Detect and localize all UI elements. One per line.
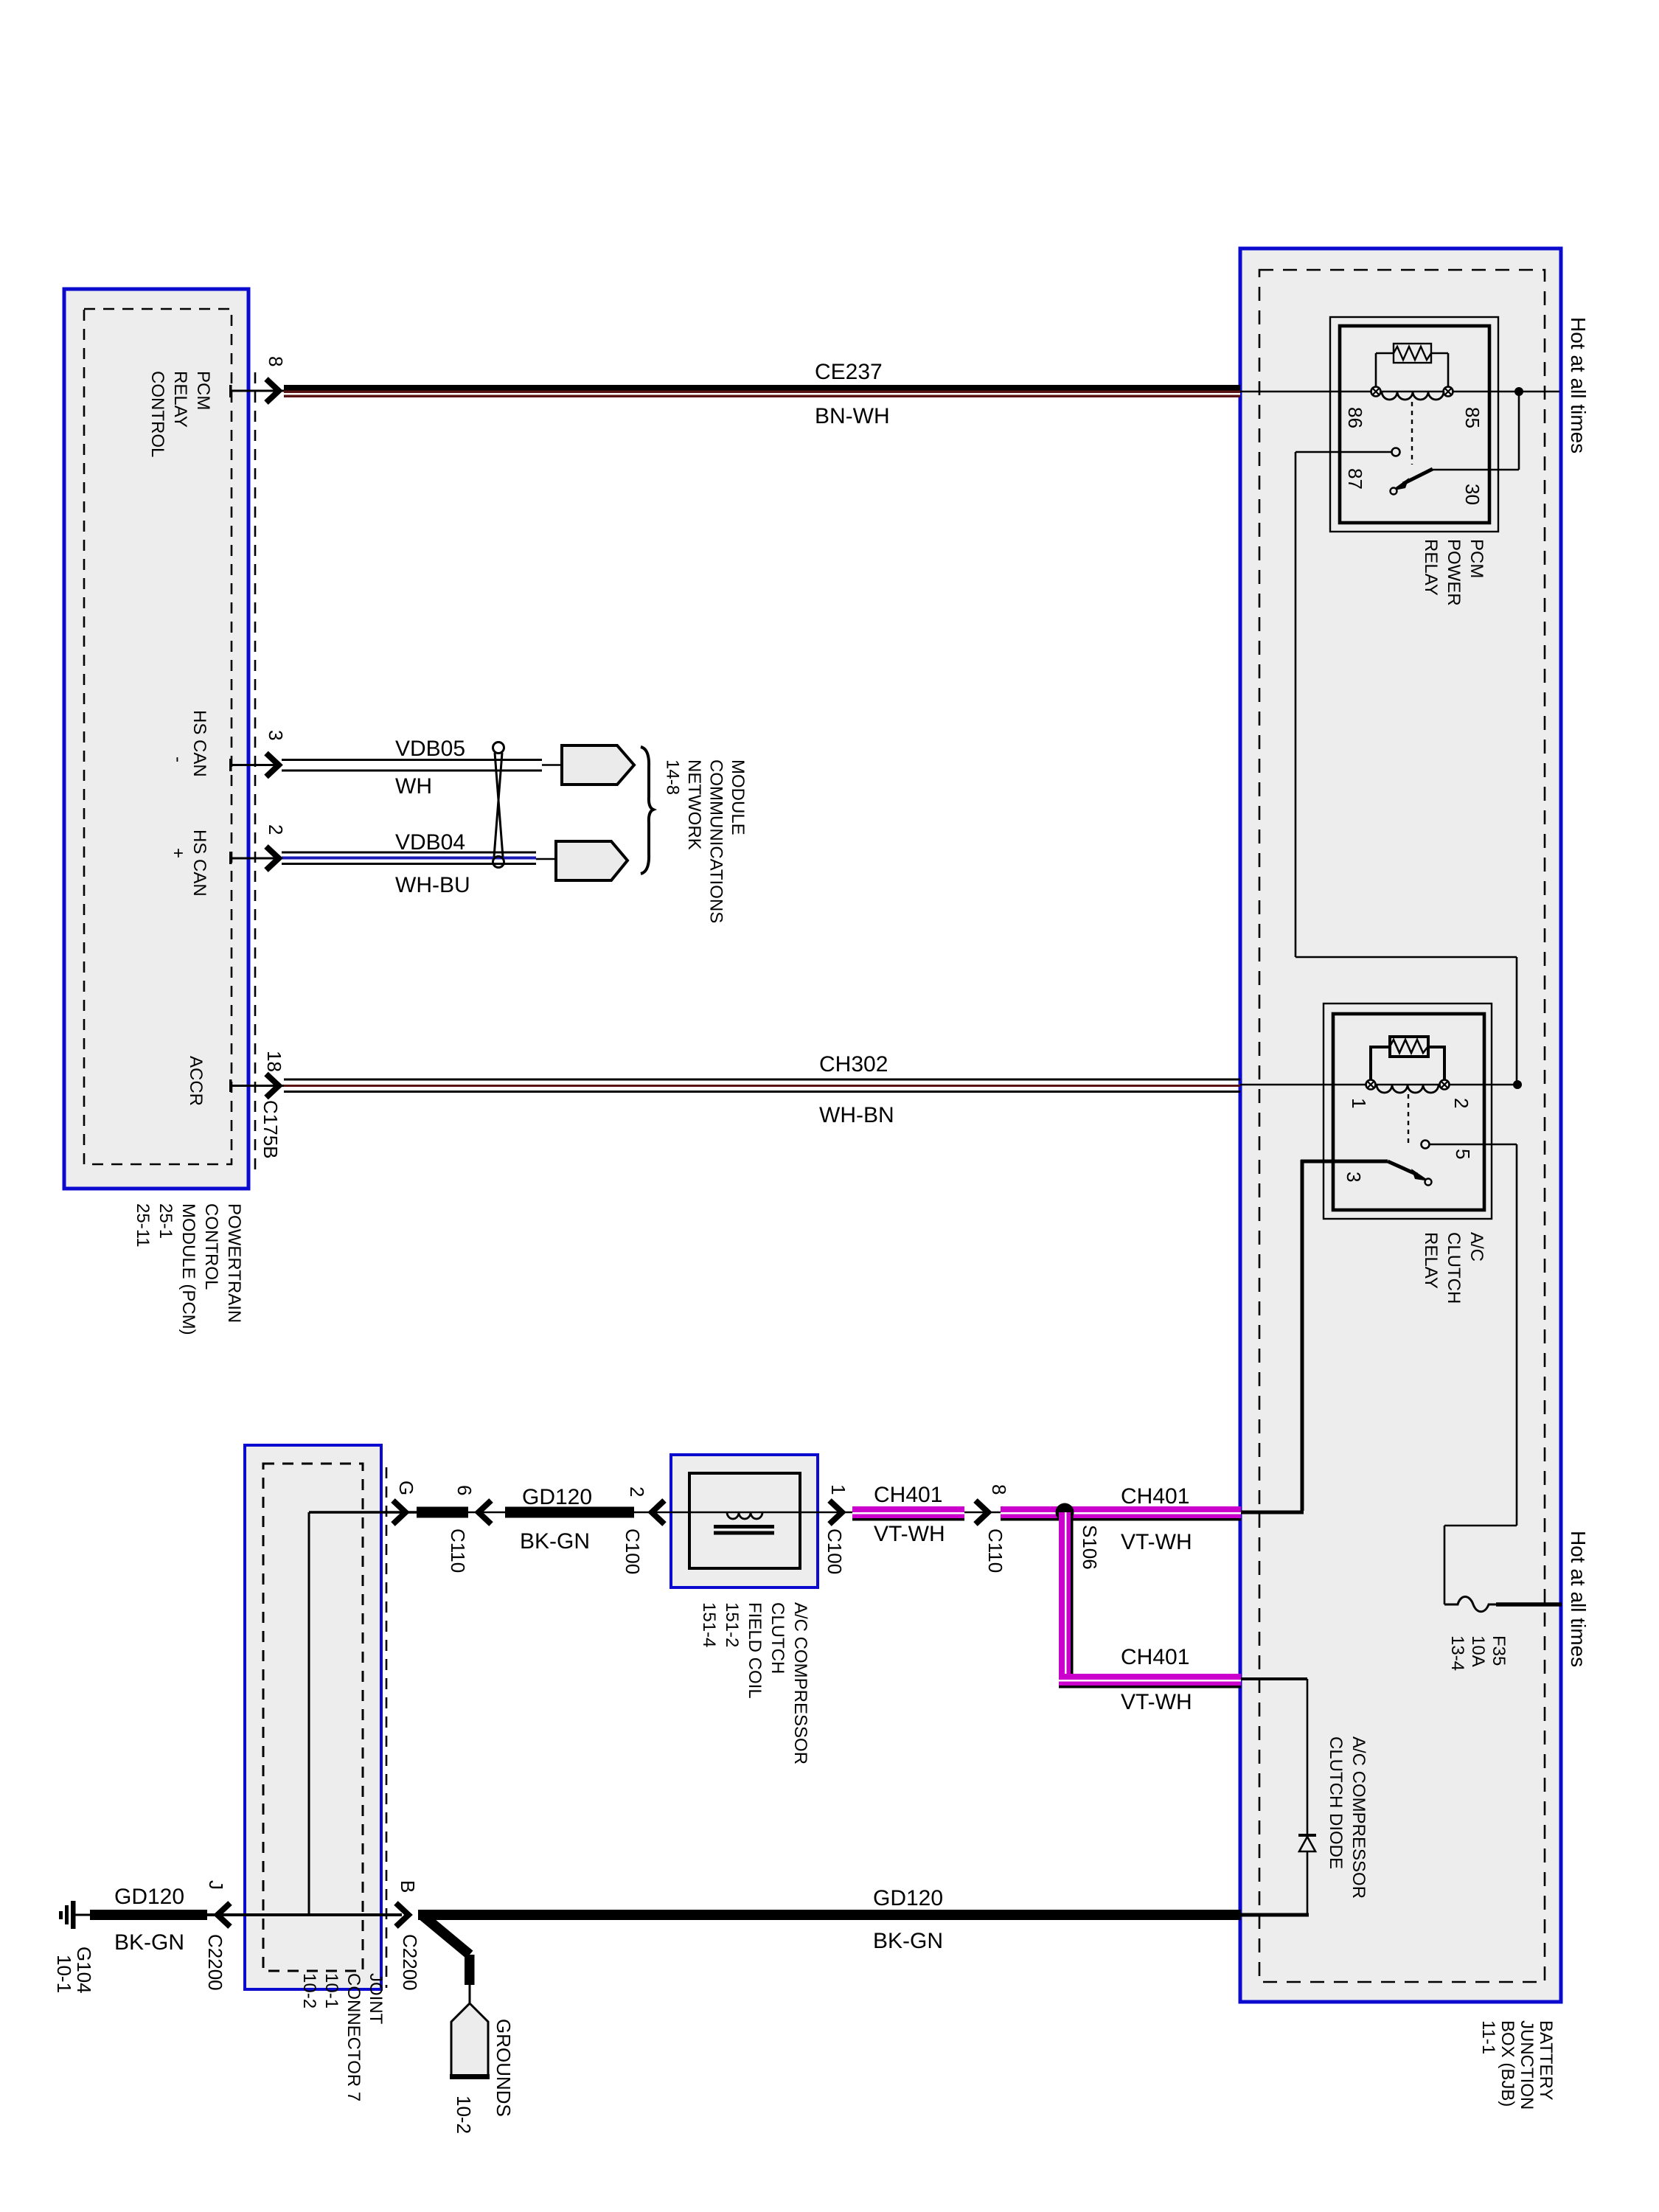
svg-text:RELAY: RELAY bbox=[170, 371, 190, 428]
label C100 pin 2 bbox=[626, 1486, 648, 1497]
label MODULE COMMUNICATIONS NETWORK 14-8 bbox=[663, 759, 748, 923]
twisted pair crossover symbol bbox=[493, 742, 504, 868]
svg-text:JUNCTION: JUNCTION bbox=[1517, 2020, 1537, 2110]
label F35 10A 13-4 bbox=[1447, 1635, 1509, 1671]
label wire CH302 WH-BN bbox=[819, 1052, 894, 1127]
svg-text:F35: F35 bbox=[1489, 1635, 1509, 1666]
svg-text:10A: 10A bbox=[1468, 1635, 1488, 1667]
svg-text:S106: S106 bbox=[1079, 1525, 1101, 1570]
svg-text:CLUTCH: CLUTCH bbox=[768, 1602, 787, 1674]
wire CH401 VT-WH (field coil to C110) bbox=[852, 1506, 964, 1521]
off-page connector arrow (network, lower) bbox=[556, 841, 627, 880]
svg-text:POWER: POWER bbox=[1444, 539, 1464, 606]
svg-text:CH401: CH401 bbox=[1121, 1645, 1189, 1669]
svg-text:G: G bbox=[395, 1481, 417, 1495]
field coil winding symbol bbox=[714, 1512, 774, 1535]
svg-text:HS CAN: HS CAN bbox=[189, 710, 209, 777]
ground symbol G104 bbox=[59, 1901, 90, 1929]
svg-text:COMMUNICATIONS: COMMUNICATIONS bbox=[706, 759, 726, 923]
svg-text:C2200: C2200 bbox=[399, 1934, 421, 1991]
svg-text:25-1: 25-1 bbox=[156, 1203, 175, 1239]
wire CE237 BN-WH (PCM pin 8 to BJB) bbox=[284, 385, 1240, 397]
svg-text:CONTROL: CONTROL bbox=[147, 371, 167, 457]
svg-text:BK-GN: BK-GN bbox=[873, 1929, 943, 1953]
svg-text:C110: C110 bbox=[447, 1528, 469, 1573]
label wire GD120 BK-GN (top chain) bbox=[520, 1485, 592, 1554]
label PCM POWER RELAY bbox=[1421, 539, 1486, 606]
svg-text:14-8: 14-8 bbox=[663, 759, 683, 795]
svg-text:VDB04: VDB04 bbox=[395, 830, 465, 855]
svg-text:151-2: 151-2 bbox=[722, 1602, 742, 1647]
label PCM pin 18 bbox=[263, 1051, 285, 1072]
module box PCM (POWERTRAIN CONTROL MODULE) bbox=[64, 289, 248, 1189]
label connector C100 (pin 2) bbox=[622, 1528, 644, 1574]
off-page arrow GROUNDS bbox=[450, 2003, 490, 2079]
svg-text:-: - bbox=[168, 757, 188, 762]
svg-text:CE237: CE237 bbox=[815, 360, 883, 384]
svg-text:8: 8 bbox=[988, 1484, 1010, 1495]
svg-text:GD120: GD120 bbox=[873, 1886, 943, 1910]
diode A/C compressor clutch diode bbox=[1298, 1834, 1316, 1851]
PCM power relay parallel resistor bbox=[1376, 344, 1448, 387]
label relay pin 1 bbox=[1348, 1098, 1370, 1108]
connector arrow C2200 pin B bbox=[396, 1903, 408, 1927]
svg-text:MODULE: MODULE bbox=[728, 759, 748, 835]
label C110 pin 8 bbox=[988, 1484, 1010, 1495]
svg-text:A/C: A/C bbox=[1467, 1232, 1486, 1262]
svg-text:FIELD COIL: FIELD COIL bbox=[745, 1602, 765, 1699]
svg-text:11-1: 11-1 bbox=[1478, 2020, 1498, 2054]
svg-text:JOINT: JOINT bbox=[366, 1973, 386, 2025]
label connector C100 (pin 1) bbox=[824, 1528, 846, 1574]
svg-text:C110: C110 bbox=[984, 1528, 1006, 1573]
wire CH401 VT-WH (C110 to BJB via S106) bbox=[1001, 1506, 1241, 1521]
svg-text:WH-BN: WH-BN bbox=[819, 1103, 894, 1127]
svg-text:C100: C100 bbox=[824, 1528, 846, 1574]
svg-text:Hot at all times: Hot at all times bbox=[1567, 1531, 1590, 1667]
PCM pin 18 terminal and arrow bbox=[229, 1074, 284, 1098]
wire through joint connector (J to B) bbox=[231, 1913, 402, 1916]
PCM power relay pin 30 wire bbox=[1433, 387, 1523, 470]
label Hot at all times (fuse) bbox=[1567, 1531, 1590, 1667]
svg-text:10-1: 10-1 bbox=[321, 1973, 341, 2008]
wire PCM relay pin 87 to A/C clutch relay coil bbox=[1295, 452, 1517, 1085]
PCM power relay armature dashed link bbox=[1411, 402, 1413, 465]
PCM power relay switch arm bbox=[1391, 469, 1433, 495]
svg-text:86: 86 bbox=[1344, 407, 1366, 428]
svg-text:BN-WH: BN-WH bbox=[815, 404, 890, 428]
label relay pin 85 bbox=[1461, 407, 1484, 428]
A/C clutch relay coil pins bbox=[1366, 1080, 1450, 1090]
label HS CAN - bbox=[168, 710, 209, 777]
wire top chain: joint connector internal (pin G) bbox=[309, 1512, 417, 1915]
label relay pin 2 bbox=[1450, 1098, 1472, 1108]
label HS CAN + bbox=[168, 829, 209, 897]
wire CH401 VT-WH branch from S106 down bbox=[1059, 1512, 1241, 1688]
A/C clutch relay pin 5 contact bbox=[1422, 1141, 1430, 1149]
PCM power relay coil pins bbox=[1371, 387, 1453, 397]
svg-text:BATTERY: BATTERY bbox=[1536, 2020, 1556, 2100]
svg-text:RELAY: RELAY bbox=[1421, 539, 1441, 596]
svg-text:1: 1 bbox=[827, 1484, 849, 1495]
label PCM pin 3 bbox=[265, 730, 287, 740]
label relay pin 30 bbox=[1461, 484, 1484, 505]
label PCM RELAY CONTROL bbox=[147, 371, 213, 457]
label A/C COMPRESSOR CLUTCH DIODE bbox=[1326, 1736, 1368, 1899]
svg-text:CH401: CH401 bbox=[874, 1483, 942, 1507]
svg-text:CH302: CH302 bbox=[819, 1052, 888, 1077]
connector arrow pin G bbox=[393, 1500, 406, 1524]
wire GD120 inside BJB to diode vertical bbox=[1241, 1913, 1309, 1917]
PCM power relay pin 87 contact bbox=[1392, 448, 1400, 456]
connector C175B dashed line bbox=[254, 372, 257, 1176]
svg-text:A/C COMPRESSOR: A/C COMPRESSOR bbox=[1349, 1736, 1368, 1899]
label PCM pin 2 bbox=[265, 824, 287, 835]
wire A/C relay pin 5 to fuse F35 bbox=[1430, 1144, 1517, 1604]
module box JOINT CONNECTOR 7 bbox=[245, 1445, 381, 1989]
svg-text:30: 30 bbox=[1461, 484, 1484, 505]
field coil wire through box bbox=[689, 1512, 818, 1514]
svg-text:25-11: 25-11 bbox=[133, 1203, 153, 1248]
svg-text:CLUTCH DIODE: CLUTCH DIODE bbox=[1326, 1736, 1346, 1869]
svg-text:BK-GN: BK-GN bbox=[520, 1529, 590, 1554]
connector arrow C100 pin 1 bbox=[818, 1500, 852, 1524]
label JC7 pin G bbox=[395, 1481, 417, 1495]
wire GD120 BK-GN (thick, C110 to C100) bbox=[505, 1507, 634, 1518]
svg-text:VT-WH: VT-WH bbox=[874, 1522, 945, 1546]
svg-text:13-4: 13-4 bbox=[1447, 1635, 1467, 1671]
svg-text:GROUNDS: GROUNDS bbox=[493, 2019, 515, 2117]
A/C clutch relay coil bbox=[1377, 1085, 1439, 1093]
svg-text:C100: C100 bbox=[622, 1528, 644, 1574]
PCM pin 3 terminal and arrow bbox=[229, 754, 282, 777]
connector arrow C110 pin 8 bbox=[964, 1500, 1001, 1524]
component box A/C COMPRESSOR CLUTCH FIELD COIL bbox=[671, 1455, 818, 1587]
relay box PCM POWER RELAY bbox=[1330, 317, 1498, 532]
svg-text:CLUTCH: CLUTCH bbox=[1444, 1232, 1464, 1304]
svg-text:GD120: GD120 bbox=[114, 1885, 184, 1909]
connector arrow C2200 pin J bbox=[218, 1903, 230, 1927]
label relay pin 3 bbox=[1343, 1172, 1365, 1182]
svg-text:1: 1 bbox=[1348, 1098, 1370, 1108]
label C2200 pin J bbox=[205, 1880, 227, 1890]
label C100 pin 1 bbox=[827, 1484, 849, 1495]
label wire CH401 VT-WH (S106 branch) bbox=[1121, 1645, 1192, 1714]
svg-text:151-4: 151-4 bbox=[699, 1602, 719, 1647]
splice node S106 bbox=[1056, 1503, 1074, 1522]
svg-text:VDB05: VDB05 bbox=[395, 737, 465, 761]
label wire CH401 VT-WH (coil to C110) bbox=[874, 1483, 945, 1546]
label A/C COMPRESSOR CLUTCH FIELD COIL 151-2 151-4 bbox=[699, 1602, 810, 1764]
svg-text:18: 18 bbox=[263, 1051, 285, 1072]
wire GD120 jumper (thick, G to C110 pin 6) bbox=[417, 1507, 468, 1518]
module box BJB (BATTERY JUNCTION BOX) bbox=[1240, 248, 1561, 2002]
svg-text:G104: G104 bbox=[73, 1947, 95, 1994]
relay box A/C CLUTCH RELAY bbox=[1324, 1004, 1492, 1219]
wire branch to grounds arrow (thick diagonal) bbox=[422, 1915, 475, 2005]
label connector C110 (pin 8) bbox=[984, 1528, 1006, 1573]
A/C clutch relay armature dashed link bbox=[1408, 1094, 1409, 1143]
PCM pin 8 terminal and arrow bbox=[229, 379, 284, 403]
label wire GD120 BK-GN (to BJB) bbox=[873, 1886, 943, 1953]
label ACCR bbox=[186, 1056, 206, 1106]
svg-text:RELAY: RELAY bbox=[1421, 1232, 1441, 1289]
label wire VDB04 WH-BU bbox=[395, 830, 470, 897]
svg-text:WH: WH bbox=[395, 774, 432, 799]
wire A/C relay pin 3 to CH401 exit (thick) bbox=[1241, 1160, 1388, 1512]
connector C2200 dashed line bbox=[386, 1467, 388, 1988]
svg-text:CONTROL: CONTROL bbox=[201, 1203, 221, 1290]
label wire GD120 BK-GN (to G104) bbox=[114, 1885, 184, 1955]
svg-text:B: B bbox=[397, 1880, 419, 1893]
connector arrow C110 pin 6 bbox=[468, 1500, 505, 1524]
A/C clutch relay switch arm bbox=[1388, 1161, 1432, 1186]
svg-text:10-2: 10-2 bbox=[453, 2096, 475, 2134]
wire GD120 BK-GN (B to BJB, thick) bbox=[418, 1910, 1241, 1920]
label C2200 pin B bbox=[397, 1880, 419, 1893]
svg-text:2: 2 bbox=[626, 1486, 648, 1497]
PCM pin 2 terminal and arrow bbox=[229, 846, 282, 870]
svg-text:GD120: GD120 bbox=[522, 1485, 592, 1509]
svg-text:ACCR: ACCR bbox=[186, 1056, 206, 1106]
svg-text:J: J bbox=[205, 1880, 227, 1890]
label JOINT CONNECTOR 7 10-1 10-2 bbox=[299, 1973, 386, 2101]
svg-text:3: 3 bbox=[1343, 1172, 1365, 1182]
svg-text:2: 2 bbox=[1450, 1098, 1472, 1108]
label connector C2200 (pin J) bbox=[204, 1934, 226, 1991]
svg-text:VT-WH: VT-WH bbox=[1121, 1530, 1192, 1554]
connector arrow C100 pin 2 bbox=[634, 1500, 689, 1524]
svg-text:BK-GN: BK-GN bbox=[114, 1930, 184, 1955]
label wire CE237 BN-WH bbox=[815, 360, 890, 428]
svg-text:A/C COMPRESSOR: A/C COMPRESSOR bbox=[790, 1602, 810, 1764]
svg-text:MODULE (PCM): MODULE (PCM) bbox=[178, 1203, 198, 1335]
svg-text:87: 87 bbox=[1344, 468, 1366, 490]
brace (module communications network) bbox=[641, 747, 653, 874]
wire coil line through A/C clutch relay (inside BJB) bbox=[1240, 1084, 1517, 1086]
label wire CH401 VT-WH (S106 to BJB) bbox=[1121, 1484, 1192, 1554]
junction node A/C relay coil pin 2 bbox=[1513, 1080, 1522, 1089]
svg-text:POWERTRAIN: POWERTRAIN bbox=[224, 1203, 244, 1323]
label ground G104 10-1 bbox=[53, 1947, 95, 1994]
svg-text:8: 8 bbox=[265, 356, 287, 366]
label POWERTRAIN CONTROL MODULE (PCM) bbox=[133, 1203, 244, 1335]
label relay pin 86 bbox=[1344, 407, 1366, 428]
svg-text:WH-BU: WH-BU bbox=[395, 873, 470, 897]
wire VDB04 WH-BU (PCM pin 2, twisted pair) bbox=[282, 852, 556, 864]
svg-text:C175B: C175B bbox=[260, 1100, 282, 1159]
svg-text:6: 6 bbox=[453, 1485, 476, 1495]
svg-text:2: 2 bbox=[265, 824, 287, 835]
label Hot at all times (top) bbox=[1567, 317, 1590, 453]
svg-text:PCM: PCM bbox=[1467, 539, 1486, 578]
label C110 pin 6 bbox=[453, 1485, 476, 1495]
label PCM pin 8 bbox=[265, 356, 287, 366]
svg-text:NETWORK: NETWORK bbox=[684, 759, 704, 850]
label BATTERY JUNCTION BOX (BJB) 11-1 bbox=[1478, 2020, 1556, 2110]
svg-text:HS CAN: HS CAN bbox=[189, 829, 209, 897]
svg-text:+: + bbox=[168, 848, 188, 858]
label wire VDB05 WH bbox=[395, 737, 465, 799]
svg-text:CONNECTOR 7: CONNECTOR 7 bbox=[344, 1973, 364, 2101]
A/C clutch relay parallel resistor bbox=[1369, 1037, 1446, 1080]
svg-text:PCM: PCM bbox=[193, 371, 213, 410]
svg-text:Hot at all times: Hot at all times bbox=[1567, 317, 1590, 453]
svg-text:85: 85 bbox=[1461, 407, 1484, 428]
label GROUNDS 10-2 bbox=[453, 2019, 515, 2134]
svg-text:5: 5 bbox=[1452, 1149, 1474, 1159]
wire CH302 WH-BN (PCM pin 18 to BJB) bbox=[284, 1079, 1240, 1092]
fuse F35 10A bbox=[1444, 1597, 1562, 1612]
svg-text:VT-WH: VT-WH bbox=[1121, 1690, 1192, 1714]
svg-text:C2200: C2200 bbox=[204, 1934, 226, 1991]
label connector C2200 (pin B) bbox=[399, 1934, 421, 1991]
wire CH401 continuation inside BJB to diode bbox=[1241, 1679, 1307, 1915]
label connector C175B bbox=[260, 1100, 282, 1159]
svg-text:CH401: CH401 bbox=[1121, 1484, 1189, 1509]
label relay pin 87 bbox=[1344, 468, 1366, 490]
label relay pin 5 bbox=[1452, 1149, 1474, 1159]
svg-text:BOX (BJB): BOX (BJB) bbox=[1498, 2020, 1517, 2107]
wire VDB05 WH (PCM pin 3, twisted pair) bbox=[282, 760, 562, 771]
wire hot feed line through PCM power relay coil (inside BJB) bbox=[1240, 391, 1559, 393]
svg-text:10-2: 10-2 bbox=[299, 1973, 319, 2008]
off-page connector arrow (network, upper) bbox=[562, 745, 634, 785]
label connector C110 (pin 6) bbox=[447, 1528, 469, 1573]
PCM power relay coil bbox=[1382, 392, 1444, 400]
svg-text:3: 3 bbox=[265, 730, 287, 740]
label A/C CLUTCH RELAY bbox=[1421, 1232, 1486, 1304]
label splice S106 bbox=[1079, 1525, 1101, 1570]
svg-text:10-1: 10-1 bbox=[53, 1955, 75, 1993]
wire GD120 BK-GN (G104 to C2200 pin J, thick) bbox=[90, 1910, 245, 1920]
